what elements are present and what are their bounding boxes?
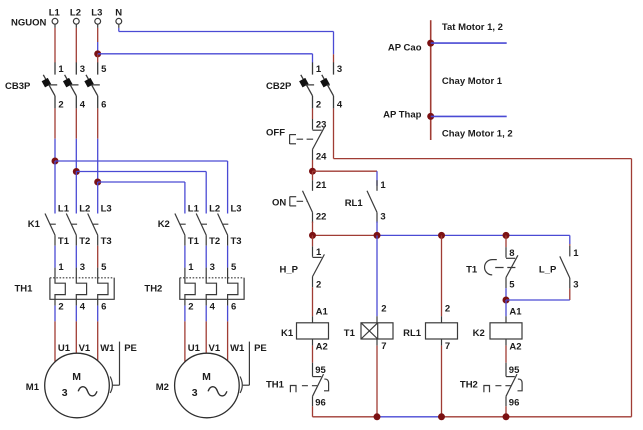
wire TH2-2 to M2 xyxy=(184,306,186,362)
thermal contact TH2 95-96 (NC) xyxy=(460,363,522,409)
svg-text:T2: T2 xyxy=(209,236,220,247)
svg-text:CB3P: CB3P xyxy=(5,81,31,92)
svg-text:5: 5 xyxy=(231,262,237,273)
wire phase2 to K1 xyxy=(75,172,77,214)
node after OFF xyxy=(309,168,316,175)
svg-text:OFF: OFF xyxy=(266,128,285,139)
svg-text:L3: L3 xyxy=(231,203,242,214)
label Chay Motor 1, 2 xyxy=(442,128,513,139)
terminal N xyxy=(115,7,122,28)
svg-text:V1: V1 xyxy=(209,343,221,354)
contactor K1 main contacts xyxy=(28,203,112,247)
wire phase1 to K1 xyxy=(54,161,56,214)
wire K2 coil to TH2 contact xyxy=(505,346,507,363)
svg-text:L2: L2 xyxy=(79,203,90,214)
PE conductor M2 xyxy=(240,342,249,393)
svg-text:5: 5 xyxy=(101,64,107,75)
svg-text:3: 3 xyxy=(80,262,85,273)
svg-text:TH2: TH2 xyxy=(144,284,162,295)
svg-text:T3: T3 xyxy=(101,236,112,247)
wire K1-T3 to TH1 xyxy=(97,246,99,268)
wire rail to T1 coil xyxy=(376,235,378,316)
wire AP Cao level xyxy=(431,42,507,44)
wire CB3P pole1 out xyxy=(54,108,56,161)
wire sub node to K2 coil xyxy=(505,300,507,316)
coil K2 xyxy=(473,306,523,352)
svg-text:7: 7 xyxy=(381,341,386,352)
svg-text:6: 6 xyxy=(101,301,106,312)
svg-text:96: 96 xyxy=(315,397,326,408)
thermal relay TH2 xyxy=(144,262,244,312)
svg-text:7: 7 xyxy=(445,341,450,352)
svg-text:AP Cao: AP Cao xyxy=(388,42,422,53)
push button ON (NO) xyxy=(272,180,327,223)
wire K2-T1 to TH2 xyxy=(184,246,186,268)
svg-text:L1: L1 xyxy=(58,203,70,214)
svg-text:L3: L3 xyxy=(101,203,112,214)
node rail xyxy=(309,232,570,239)
wire L3 below tap xyxy=(97,54,99,63)
svg-text:U1: U1 xyxy=(188,343,201,354)
wire node to RL1 contact xyxy=(313,171,378,186)
svg-text:3: 3 xyxy=(80,64,85,75)
svg-text:24: 24 xyxy=(316,152,327,163)
timer contact T1 8-5 (NC delayed) xyxy=(466,247,518,290)
svg-text:M: M xyxy=(72,371,81,383)
wire CB3P pole3 out xyxy=(97,108,99,182)
svg-text:23: 23 xyxy=(316,119,327,130)
wire N to CB2P pole 3 xyxy=(119,28,334,63)
svg-text:T1: T1 xyxy=(188,236,200,247)
svg-text:2: 2 xyxy=(188,301,193,312)
terminal L3 xyxy=(91,7,102,28)
node phase3 split xyxy=(94,179,101,186)
svg-text:2: 2 xyxy=(381,304,386,315)
svg-text:1: 1 xyxy=(316,64,322,75)
svg-text:A2: A2 xyxy=(316,342,328,353)
svg-text:3: 3 xyxy=(210,262,215,273)
svg-text:Tat Motor 1, 2: Tat Motor 1, 2 xyxy=(442,22,503,33)
wire rail to L_P xyxy=(569,235,571,245)
wire L2 to CB3P xyxy=(75,28,77,63)
svg-text:K2: K2 xyxy=(158,219,170,230)
coil K1 xyxy=(281,306,329,352)
svg-text:M: M xyxy=(202,371,211,383)
label AP Thap xyxy=(383,110,422,121)
label AP Cao xyxy=(388,42,422,53)
wire TH2-4 to M2 xyxy=(205,306,207,354)
wire phase1 to K2 xyxy=(55,161,228,214)
svg-text:96: 96 xyxy=(509,397,520,408)
svg-text:V1: V1 xyxy=(79,343,91,354)
svg-text:2: 2 xyxy=(58,301,63,312)
svg-text:PE: PE xyxy=(124,343,137,354)
svg-text:A1: A1 xyxy=(509,306,522,317)
svg-text:TH1: TH1 xyxy=(15,284,34,295)
svg-text:M2: M2 xyxy=(156,382,169,393)
svg-text:PE: PE xyxy=(254,343,267,354)
svg-text:L2: L2 xyxy=(70,7,81,18)
node phase1 split xyxy=(52,158,59,165)
svg-text:AP Thap: AP Thap xyxy=(383,110,422,121)
svg-text:2: 2 xyxy=(316,100,321,111)
wire K1-T1 to TH1 xyxy=(54,246,56,268)
wire TH1-2 to M1 xyxy=(54,306,56,362)
svg-text:T1: T1 xyxy=(344,328,356,339)
wire TH1 96 to bottom rail xyxy=(312,406,314,417)
svg-text:H_P: H_P xyxy=(280,264,299,275)
terminal L2 xyxy=(70,7,81,28)
node L3 tap xyxy=(94,50,101,57)
svg-text:ON: ON xyxy=(272,197,286,208)
svg-text:8: 8 xyxy=(509,248,514,259)
svg-text:W1: W1 xyxy=(230,343,245,354)
circuit breaker CB3P xyxy=(5,62,107,110)
pressure switch L_P (NO) xyxy=(539,246,579,291)
wire RL1 coil to bottom rail xyxy=(441,346,443,417)
svg-text:L1: L1 xyxy=(188,203,200,214)
node AP Thap xyxy=(427,113,434,120)
wire CB2P pole1 to OFF xyxy=(312,108,314,119)
svg-text:1: 1 xyxy=(188,262,194,273)
svg-text:95: 95 xyxy=(315,365,326,376)
svg-text:CB2P: CB2P xyxy=(266,81,292,92)
wire L_P to sub node xyxy=(506,289,570,300)
svg-text:L1: L1 xyxy=(49,7,61,18)
wire phase3 to K2 xyxy=(98,182,185,214)
svg-text:Chay Motor 1: Chay Motor 1 xyxy=(442,76,503,87)
wire TH2-6 to M2 xyxy=(227,306,229,361)
wire phase3 to K1 xyxy=(97,182,99,214)
svg-text:TH1: TH1 xyxy=(266,379,285,390)
relay coil RL1 xyxy=(403,304,457,352)
svg-text:L_P: L_P xyxy=(539,264,557,275)
svg-text:2: 2 xyxy=(316,279,321,290)
wire rail to T1 contact xyxy=(505,235,507,247)
svg-text:3: 3 xyxy=(573,279,578,290)
svg-text:4: 4 xyxy=(80,301,86,312)
svg-text:Chay Motor 1, 2: Chay Motor 1, 2 xyxy=(442,128,513,139)
svg-text:K1: K1 xyxy=(28,219,41,230)
wire ON to rail xyxy=(312,222,314,236)
node AP Cao xyxy=(427,40,434,47)
svg-text:5: 5 xyxy=(101,262,107,273)
svg-text:2: 2 xyxy=(445,304,450,315)
thermal relay TH1 xyxy=(15,262,115,312)
svg-text:3: 3 xyxy=(192,387,198,399)
circuit breaker CB2P xyxy=(266,62,343,110)
svg-text:T2: T2 xyxy=(79,236,90,247)
wire T1 coil to bottom rail xyxy=(376,346,378,417)
wire K2-T3 to TH2 xyxy=(227,246,229,268)
svg-text:T1: T1 xyxy=(58,236,70,247)
svg-text:4: 4 xyxy=(80,100,86,111)
wire AP Thap level xyxy=(431,115,507,117)
svg-text:A1: A1 xyxy=(316,306,329,317)
wire rail to H_P xyxy=(312,235,314,246)
node phase2 split xyxy=(73,168,80,175)
svg-text:K2: K2 xyxy=(473,328,485,339)
wire RL1 to rail xyxy=(376,222,378,236)
motor M1 xyxy=(26,343,137,418)
PE conductor M1 xyxy=(110,342,119,393)
pressure switch H_P (NC) xyxy=(280,246,325,290)
svg-text:W1: W1 xyxy=(100,343,115,354)
svg-text:6: 6 xyxy=(101,100,106,111)
svg-text:L2: L2 xyxy=(209,203,220,214)
wire K1 coil to TH1 contact xyxy=(312,346,314,363)
wire phase2 to K2 xyxy=(76,172,206,214)
svg-text:3: 3 xyxy=(62,387,68,399)
wire H_P to K1 coil xyxy=(312,287,314,316)
svg-text:M1: M1 xyxy=(26,382,40,393)
svg-text:3: 3 xyxy=(337,64,342,75)
wire T1 5 to sub node xyxy=(505,288,507,300)
svg-text:22: 22 xyxy=(316,212,327,223)
svg-text:K1: K1 xyxy=(281,328,294,339)
timer coil T1 xyxy=(344,304,393,352)
svg-text:1: 1 xyxy=(58,64,64,75)
wire node to ON xyxy=(312,171,314,180)
svg-text:3: 3 xyxy=(380,212,385,223)
bottom rail xyxy=(313,413,632,420)
svg-text:T3: T3 xyxy=(231,236,242,247)
svg-text:5: 5 xyxy=(509,279,515,290)
wire L3 upper xyxy=(97,28,99,54)
motor M2 xyxy=(156,343,267,418)
terminal L1 xyxy=(49,7,61,28)
contactor K2 main contacts xyxy=(158,203,242,247)
thermal contact TH1 95-96 (NC) xyxy=(266,363,329,409)
neutral return wire xyxy=(334,108,632,416)
svg-text:U1: U1 xyxy=(58,343,71,354)
pressure scale line xyxy=(430,20,432,140)
wire rail to RL1 coil xyxy=(441,235,443,316)
wire L3 tap to CB2P pole 1 xyxy=(98,54,313,63)
label Tat Motor 1, 2 xyxy=(442,22,503,33)
wire TH2 96 to bottom rail xyxy=(505,406,507,417)
svg-text:NGUON: NGUON xyxy=(11,17,47,28)
push button OFF (NC) xyxy=(266,119,327,163)
wire CB3P pole2 out xyxy=(75,108,77,171)
wire OFF to node xyxy=(312,160,314,171)
svg-text:N: N xyxy=(115,7,122,18)
svg-text:21: 21 xyxy=(316,180,327,191)
svg-text:1: 1 xyxy=(316,247,322,258)
svg-text:95: 95 xyxy=(509,365,520,376)
relay contact RL1 (NO) xyxy=(345,180,387,223)
svg-text:1: 1 xyxy=(58,262,64,273)
svg-text:L3: L3 xyxy=(91,7,102,18)
svg-text:4: 4 xyxy=(337,100,343,111)
wire L1 to CB3P xyxy=(54,28,56,63)
svg-text:RL1: RL1 xyxy=(345,198,364,209)
svg-text:T1: T1 xyxy=(466,264,478,275)
svg-text:TH2: TH2 xyxy=(460,379,478,390)
svg-text:6: 6 xyxy=(231,301,236,312)
svg-text:1: 1 xyxy=(380,180,386,191)
svg-text:A2: A2 xyxy=(509,342,521,353)
svg-text:2: 2 xyxy=(58,100,63,111)
wire K1-T2 to TH1 xyxy=(75,246,77,268)
svg-text:1: 1 xyxy=(573,248,579,259)
wire TH1-6 to M1 xyxy=(97,306,99,361)
svg-text:RL1: RL1 xyxy=(403,328,422,339)
svg-text:4: 4 xyxy=(210,301,216,312)
label Chay Motor 1 xyxy=(442,76,503,87)
label NGUON xyxy=(11,17,47,28)
node sub rail xyxy=(503,297,510,304)
wire K2-T2 to TH2 xyxy=(205,246,207,268)
wire TH1-4 to M1 xyxy=(75,306,77,354)
